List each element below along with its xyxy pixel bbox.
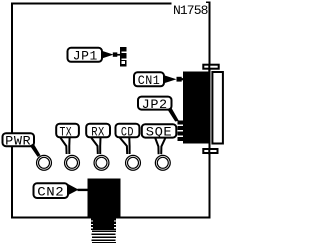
pointer TX (60, 138, 69, 154)
pointer PWR (30, 144, 41, 157)
LED SQE (155, 155, 170, 170)
pointer RX (91, 138, 100, 154)
svg-text:JP1: JP1 (73, 50, 98, 64)
svg-text:N1758: N1758 (173, 3, 208, 18)
pointer CN1 (164, 75, 184, 83)
label CN1 (134, 72, 164, 88)
board right border through tabs (208, 64, 210, 72)
LED CD (126, 155, 141, 170)
svg-text:CN2: CN2 (37, 185, 64, 199)
board outline (11, 2, 211, 219)
label CD (116, 124, 140, 140)
jumper block JP1 (120, 47, 127, 67)
LED TX (65, 155, 80, 170)
connector CN1 flange (212, 72, 223, 144)
label CN2 (34, 183, 69, 199)
LED PWR (37, 155, 52, 170)
connector CN1 top screw tab (203, 65, 218, 69)
pointer SQE (155, 138, 165, 154)
connector CN1 bottom screw tab (203, 149, 217, 153)
label JP2 (138, 97, 172, 112)
connector CN2 body (BNC) (88, 178, 121, 218)
connector CN1 body (D-sub) (183, 72, 210, 144)
label PWR (3, 133, 35, 148)
svg-text:PWR: PWR (5, 134, 31, 148)
pointer CN2 (68, 184, 88, 196)
svg-text:CN1: CN1 (138, 74, 161, 88)
label RX (86, 124, 110, 140)
svg-text:CD: CD (121, 125, 134, 139)
svg-text:JP2: JP2 (142, 98, 168, 112)
LED RX (94, 155, 109, 170)
pin header strip JP2 (178, 121, 185, 141)
pointer CD (120, 138, 130, 154)
svg-text:RX: RX (91, 125, 105, 139)
connector CN2 threads (91, 217, 116, 243)
pointer JP1 (101, 51, 121, 59)
label JP1 (68, 48, 103, 64)
label TX (56, 124, 79, 140)
label SQE (142, 124, 177, 139)
svg-text:TX: TX (60, 125, 73, 139)
pointer JP2 (167, 109, 179, 122)
svg-text:SQE: SQE (146, 126, 173, 140)
